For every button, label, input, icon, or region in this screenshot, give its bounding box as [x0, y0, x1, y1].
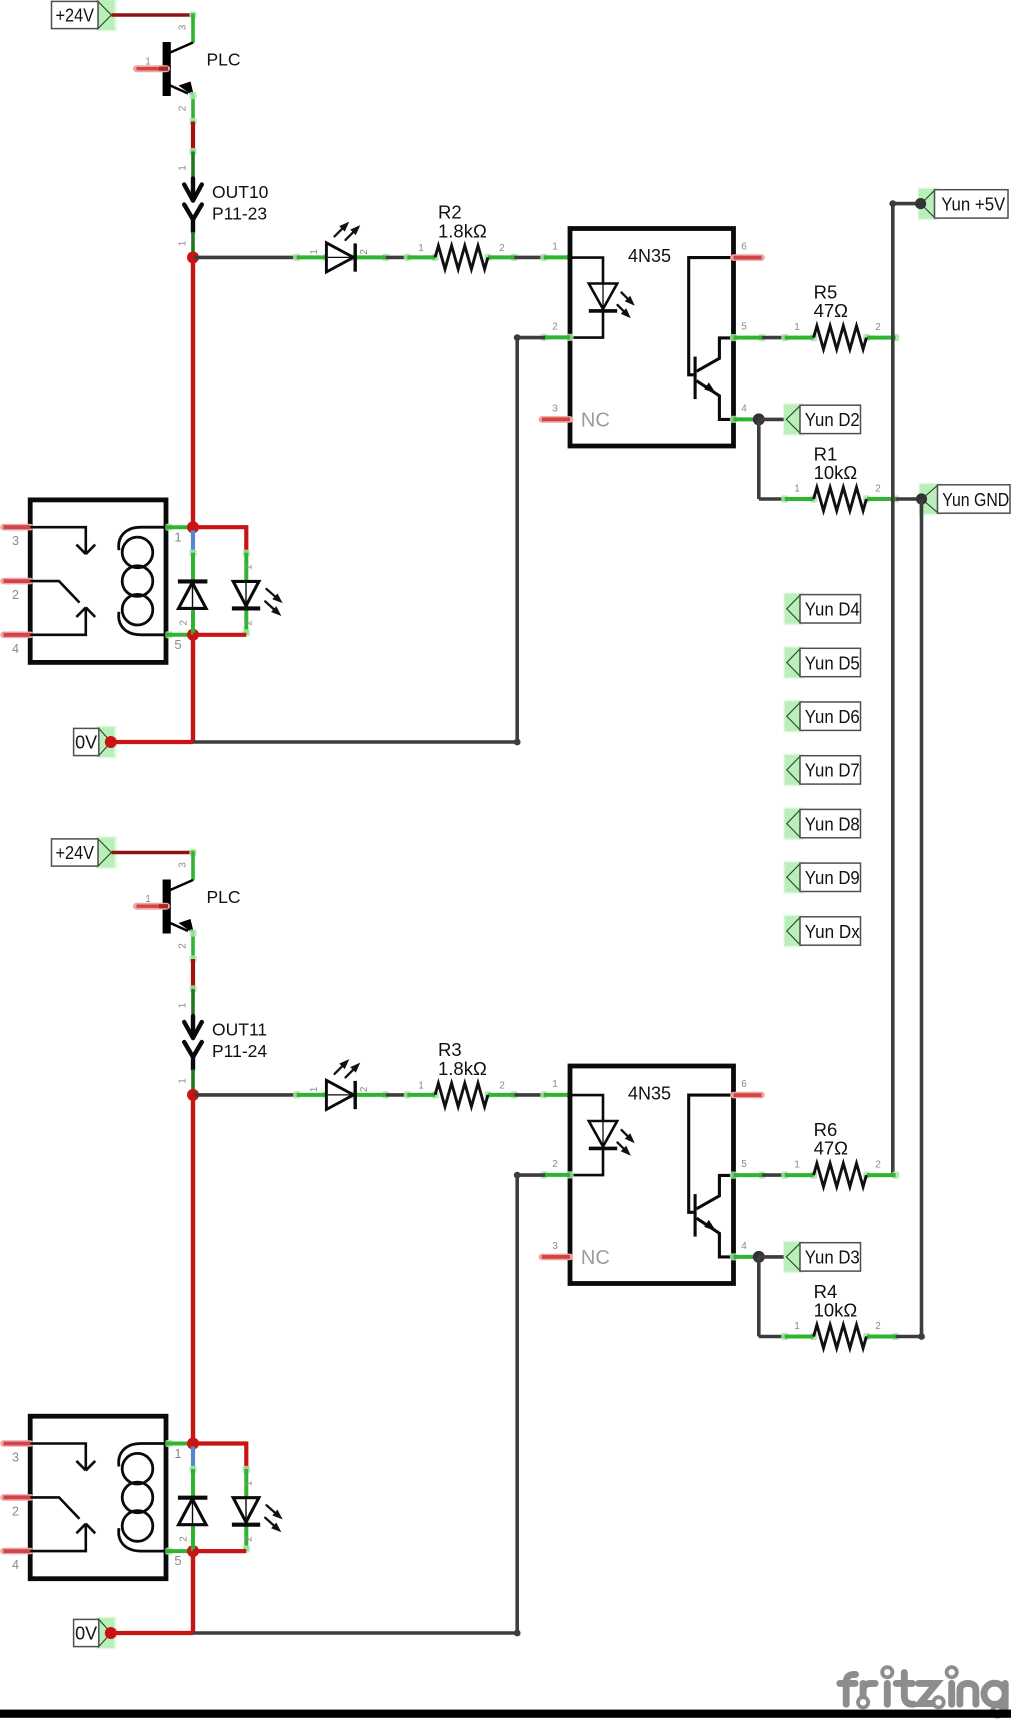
wire green below diode	[191, 582, 195, 634]
svg-text:1: 1	[178, 240, 189, 246]
svg-text:2: 2	[552, 1159, 558, 1170]
relay pin 1 wire (green)	[165, 1440, 172, 1447]
svg-text:+24V: +24V	[56, 6, 95, 26]
svg-text:1: 1	[794, 1160, 800, 1171]
svg-text:2: 2	[12, 1504, 19, 1518]
relay pin 4 stub	[4, 631, 31, 638]
output arrow OUT10	[184, 179, 202, 233]
svg-text:47Ω: 47Ω	[814, 300, 849, 321]
svg-text:2: 2	[875, 1160, 881, 1171]
wire red relay2 to 0V	[191, 1551, 195, 1633]
wire green above diode	[189, 1466, 196, 1473]
svg-text:2: 2	[179, 619, 190, 625]
relay pin 2 stub	[4, 1494, 31, 1501]
fritzing watermark	[840, 1673, 1005, 1714]
wire red to LED branch	[193, 1441, 246, 1445]
svg-text:Yun D6: Yun D6	[805, 707, 860, 727]
svg-text:Yun D3: Yun D3	[805, 1248, 860, 1268]
svg-text:2: 2	[178, 105, 189, 111]
wire to Yun D3 flag	[759, 1255, 787, 1259]
svg-text:NC: NC	[581, 1247, 610, 1269]
LED D (discrete)	[293, 222, 389, 272]
svg-text:2: 2	[244, 619, 255, 625]
wire opto pin 4 (green)	[730, 416, 737, 423]
net flag Yun D3	[783, 1241, 804, 1274]
resistor R4 10k	[781, 1333, 788, 1340]
relay pin 5 wire (green)	[165, 631, 172, 638]
svg-text:5: 5	[174, 1553, 181, 1568]
svg-text:2: 2	[244, 1536, 255, 1542]
wire gray 0V return bottom	[193, 1631, 517, 1635]
svg-text:Yun D4: Yun D4	[805, 600, 860, 620]
junction node	[187, 1089, 199, 1101]
net flag Yun D5	[784, 646, 804, 679]
wire LED branch return	[193, 1549, 246, 1553]
wire R4 to bus	[896, 1335, 922, 1339]
svg-text:2: 2	[359, 249, 370, 255]
svg-text:6: 6	[741, 1079, 747, 1090]
svg-text:1: 1	[145, 894, 151, 905]
wire vertical bus Yun +5V	[891, 204, 895, 1176]
net flag Yun D7	[784, 754, 804, 787]
svg-text:1: 1	[174, 1446, 181, 1461]
junction node Yun +5V	[915, 198, 926, 209]
svg-text:5: 5	[174, 637, 181, 652]
svg-text:1.8kΩ: 1.8kΩ	[438, 221, 487, 242]
relay pin 2 stub	[4, 578, 31, 585]
relay switch contacts	[30, 1444, 95, 1552]
wire LED to R	[386, 1093, 408, 1097]
optocoupler U 4N35	[570, 1066, 734, 1284]
junction node relay pin5	[187, 629, 199, 641]
flyback diode D	[178, 581, 208, 608]
svg-text:NC: NC	[581, 409, 610, 431]
net flag Yun D6	[784, 700, 804, 733]
svg-text:3: 3	[552, 1241, 558, 1252]
svg-text:2: 2	[552, 321, 558, 332]
wire blue segment	[191, 530, 195, 553]
wire red relay to 0V	[191, 635, 195, 742]
svg-text:R3: R3	[438, 1039, 462, 1060]
wire green below LED	[244, 1499, 248, 1552]
relay coil	[119, 1444, 166, 1552]
svg-text:Yun +5V: Yun +5V	[941, 195, 1005, 215]
relay pin 1 wire (green)	[165, 524, 172, 531]
wire junction to LED	[193, 256, 298, 260]
net flag Yun D8	[784, 807, 804, 840]
net flag Yun D4	[784, 593, 804, 626]
wire red segment	[191, 122, 195, 152]
svg-text:PLC: PLC	[207, 887, 241, 907]
svg-text:1: 1	[145, 57, 151, 68]
wire opto pin 1 (green)	[540, 254, 547, 261]
svg-text:3: 3	[552, 403, 558, 414]
svg-text:2: 2	[499, 1080, 505, 1091]
wire LED to R	[386, 256, 408, 260]
wire green below diode	[191, 1499, 195, 1551]
svg-text:1: 1	[174, 530, 181, 545]
relay LED indicator	[232, 1498, 283, 1533]
relay pin 3 stub	[4, 1440, 31, 1447]
svg-text:6: 6	[741, 241, 747, 252]
svg-text:2: 2	[875, 484, 881, 495]
wire arrow to junction (dark green)	[191, 1070, 195, 1092]
wire opto pin 1 (green)	[540, 1091, 547, 1098]
output arrow OUT11	[184, 1016, 202, 1070]
svg-text:1: 1	[418, 1080, 424, 1091]
junction node 0V bottom	[105, 1627, 117, 1639]
relay LED indicator	[232, 581, 283, 616]
svg-text:OUT11: OUT11	[212, 1020, 267, 1040]
svg-text:1: 1	[178, 1002, 189, 1008]
wire red to LED branch	[193, 525, 246, 529]
wire bus to Yun +5V dot	[893, 202, 921, 206]
wire green below LED	[244, 582, 248, 635]
power flag +24V	[96, 836, 117, 869]
svg-text:4: 4	[741, 1241, 747, 1252]
svg-text:Yun D8: Yun D8	[805, 814, 860, 834]
svg-text:1: 1	[552, 241, 558, 252]
wire blue segment	[191, 1447, 195, 1470]
wire R to opto pin1	[514, 256, 545, 260]
net flag Yun +5V	[918, 188, 939, 221]
power flag +24V	[96, 0, 117, 31]
net flag Yun Dx	[784, 915, 804, 948]
wire 0V to main	[111, 740, 193, 744]
svg-text:P11-23: P11-23	[212, 204, 267, 224]
wire red segment	[191, 959, 195, 989]
wire dark green to arrow	[189, 985, 196, 992]
relay pin 3 stub	[4, 524, 31, 531]
pin 6 stub	[734, 254, 762, 261]
relay coil	[119, 527, 166, 635]
relay pin 5 wire (green)	[165, 1548, 172, 1555]
wire main red vertical (top)	[191, 257, 195, 527]
junction node pin4	[753, 413, 765, 425]
junction node pin4	[753, 1251, 765, 1263]
wire opto pin 2 (green)	[540, 334, 547, 341]
wire collector (green, pin 3)	[189, 849, 196, 856]
svg-text:P11-24: P11-24	[212, 1041, 267, 1061]
svg-text:1: 1	[178, 1078, 189, 1084]
svg-text:Yun GND: Yun GND	[942, 490, 1009, 510]
svg-text:10kΩ: 10kΩ	[814, 462, 858, 483]
svg-text:4: 4	[741, 403, 747, 414]
svg-text:+24V: +24V	[56, 843, 95, 863]
transistor Q PLC	[137, 42, 195, 97]
wire opto pin 2 (green)	[540, 1171, 547, 1178]
svg-text:1: 1	[244, 1480, 255, 1486]
wire to Yun D2 flag	[759, 418, 787, 422]
optocoupler U 4N35	[570, 229, 734, 447]
svg-text:2: 2	[178, 943, 189, 949]
resistor R5 47R	[781, 334, 788, 341]
svg-text:4: 4	[12, 1558, 19, 1572]
wire green above LED	[243, 1466, 250, 1473]
svg-text:1: 1	[794, 1321, 800, 1332]
relay K box	[30, 500, 166, 663]
net flag Yun GND	[919, 483, 942, 516]
pin 3 NC stub	[542, 1254, 570, 1261]
svg-text:0V: 0V	[75, 733, 97, 753]
wire +24V to collector bend	[112, 13, 194, 16]
wire pin5 to R5	[762, 336, 786, 340]
wire pin4 down to R4	[757, 1257, 761, 1337]
net flag Yun D9	[784, 861, 804, 894]
svg-text:1: 1	[178, 165, 189, 171]
net flag Yun D2	[783, 403, 804, 436]
svg-text:4N35: 4N35	[628, 1084, 671, 1104]
LED D (discrete)	[293, 1059, 389, 1109]
power flag 0V (top)	[96, 726, 116, 759]
svg-text:Yun D5: Yun D5	[805, 653, 860, 673]
svg-text:4: 4	[12, 642, 19, 656]
svg-text:2: 2	[875, 322, 881, 333]
wire R1 to Yun GND	[896, 497, 922, 501]
wire gray 0V return	[193, 740, 517, 744]
svg-text:2: 2	[875, 1321, 881, 1332]
svg-text:1: 1	[244, 564, 255, 570]
svg-text:1: 1	[794, 484, 800, 495]
pin 6 stub	[734, 1092, 762, 1099]
resistor R1 10k	[781, 495, 788, 502]
svg-text:Yun Dx: Yun Dx	[805, 922, 860, 942]
junction node relay pin1	[187, 521, 199, 533]
junction node 0V	[105, 736, 117, 748]
junction node Yun GND	[916, 493, 927, 504]
svg-text:PLC: PLC	[207, 50, 241, 70]
svg-text:2: 2	[359, 1086, 370, 1092]
power flag 0V (bottom)	[96, 1617, 116, 1650]
svg-text:R2: R2	[438, 202, 462, 223]
svg-text:5: 5	[741, 321, 747, 332]
svg-text:2: 2	[179, 1536, 190, 1542]
wire emitter (green, pin 2)	[191, 933, 195, 960]
wire R to opto pin1	[514, 1093, 545, 1097]
resistor R3 1.8k	[404, 1091, 411, 1098]
wire +24V to collector bend	[112, 851, 194, 854]
svg-text:3: 3	[178, 862, 189, 868]
svg-text:3: 3	[12, 534, 19, 548]
wire collector (green, pin 3)	[189, 11, 196, 18]
svg-text:10kΩ: 10kΩ	[814, 1300, 858, 1321]
svg-text:2: 2	[499, 243, 505, 254]
svg-text:3: 3	[12, 1451, 19, 1465]
svg-text:1: 1	[309, 1086, 320, 1092]
svg-text:1: 1	[418, 243, 424, 254]
flyback diode D	[178, 1498, 208, 1525]
relay switch contacts	[30, 527, 95, 635]
svg-text:1: 1	[552, 1079, 558, 1090]
svg-text:Yun D9: Yun D9	[805, 868, 860, 888]
wire LED branch return	[193, 633, 246, 637]
resistor R2 1.8k	[404, 254, 411, 261]
relay K box	[30, 1416, 166, 1579]
wire junction to LED	[193, 1093, 298, 1097]
wire pin4 down to R1	[757, 419, 761, 499]
svg-text:2: 2	[12, 588, 19, 602]
wire arrow to junction (dark green)	[191, 232, 195, 254]
bottom black bar	[0, 1710, 1011, 1718]
wire vertical bus Yun GND	[920, 499, 924, 1337]
svg-text:Yun D2: Yun D2	[805, 410, 860, 430]
junction node relay pin1	[187, 1438, 199, 1450]
transistor Q PLC	[137, 880, 195, 935]
relay pin 4 stub	[4, 1548, 31, 1555]
wire opto pin 5 (green)	[730, 334, 737, 341]
svg-text:5: 5	[741, 1159, 747, 1170]
svg-text:47Ω: 47Ω	[814, 1138, 849, 1159]
wire emitter (green, pin 2)	[191, 95, 195, 122]
wire green above diode	[189, 550, 196, 557]
junction node	[187, 251, 199, 263]
svg-text:1: 1	[309, 249, 320, 255]
wire green above LED	[243, 550, 250, 557]
wire dark green to arrow	[189, 148, 196, 155]
pin 3 NC stub	[542, 416, 570, 423]
wire opto pin 4 (green)	[730, 1253, 737, 1260]
svg-text:0V: 0V	[75, 1624, 97, 1644]
wire 0V to main bottom	[111, 1631, 193, 1635]
wire main red vertical (bottom)	[191, 1095, 195, 1444]
wire opto pin 5 (green)	[730, 1172, 737, 1179]
svg-text:OUT10: OUT10	[212, 182, 269, 202]
svg-text:4N35: 4N35	[628, 246, 671, 266]
resistor R6 47R	[781, 1172, 788, 1179]
svg-text:Yun D7: Yun D7	[805, 761, 860, 781]
junction node relay pin5	[187, 1545, 199, 1557]
wire pin5 to R6	[762, 1173, 786, 1177]
svg-text:3: 3	[178, 24, 189, 30]
svg-text:1.8kΩ: 1.8kΩ	[438, 1058, 487, 1079]
svg-text:1: 1	[794, 322, 800, 333]
